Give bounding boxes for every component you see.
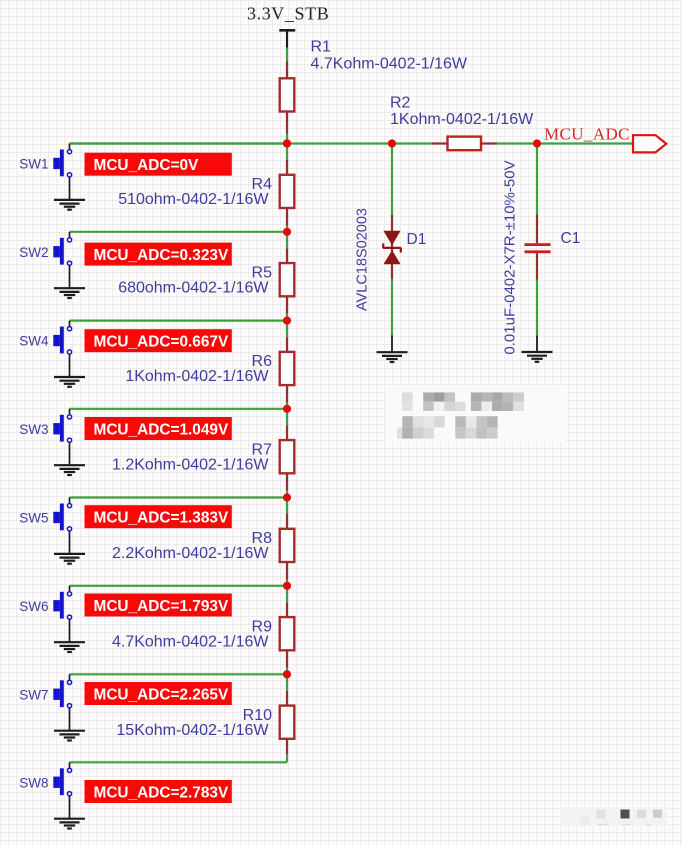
wire R2 to C1 node [497, 142, 633, 144]
watermark bottom-right blurred [560, 807, 667, 826]
port MCU_ADC [633, 135, 666, 152]
wire bus to D1 [391, 144, 393, 215]
annotation box MCU_ADC=2.265V [85, 682, 232, 705]
junction node row SW2 [283, 228, 291, 236]
ground for SW7 [54, 731, 85, 741]
capacitor C1 [525, 215, 551, 280]
junction node bus/C1 [533, 139, 541, 147]
svg-text:MCU_ADC=2.265V: MCU_ADC=2.265V [94, 686, 229, 703]
svg-text:R1: R1 [311, 39, 332, 56]
svg-text:SW8: SW8 [19, 775, 48, 790]
wire row SW6 horizontal [70, 585, 288, 587]
ground for C1 [522, 352, 553, 362]
switch SW1 [53, 144, 71, 177]
svg-text:3.3V_STB: 3.3V_STB [247, 4, 329, 24]
annotation box MCU_ADC=0V [85, 153, 232, 176]
resistor R6 [280, 337, 295, 403]
ground for SW6 [54, 642, 85, 652]
junction node bus/R4 [283, 139, 291, 147]
wire row SW1 horizontal [70, 142, 288, 144]
wire R1 to bus node [286, 134, 288, 144]
junction node row SW7 [283, 670, 291, 678]
annotation box MCU_ADC=0.667V [85, 329, 232, 352]
junction node row SW3 [283, 405, 291, 413]
wire R8 to next node [286, 580, 288, 586]
ground for SW1 [54, 200, 85, 210]
svg-text:1.2Kohm-0402-1/16W: 1.2Kohm-0402-1/16W [112, 456, 269, 473]
svg-text:15Kohm-0402-1/16W: 15Kohm-0402-1/16W [116, 722, 269, 739]
svg-text:SW3: SW3 [19, 422, 48, 437]
svg-text:R2: R2 [390, 95, 411, 112]
svg-text:510ohm-0402-1/16W: 510ohm-0402-1/16W [118, 191, 269, 208]
wire D1 to ground [391, 279, 393, 335]
wire R10 to next node [286, 754, 288, 762]
switch SW6 [53, 586, 71, 620]
junction node row SW1 [283, 139, 291, 147]
switch SW8 [53, 762, 71, 796]
svg-text:4.7Kohm-0402-1/16W: 4.7Kohm-0402-1/16W [311, 56, 468, 73]
wire ladder bottom to SW8 [70, 761, 288, 763]
resistor R1 [280, 62, 295, 134]
svg-text:SW4: SW4 [19, 334, 49, 349]
switch SW4 [53, 321, 71, 355]
svg-text:MCU_ADC=0V: MCU_ADC=0V [94, 157, 200, 174]
wire bus to C1 [536, 144, 538, 215]
wire SW2 to ground [69, 266, 71, 289]
wire node to R5 [286, 232, 288, 249]
svg-text:MCU_ADC=1.049V: MCU_ADC=1.049V [94, 421, 229, 438]
ground for SW4 [54, 377, 85, 387]
wire node to R9 [286, 586, 288, 603]
wire SW8 to ground [69, 796, 71, 819]
svg-text:C1: C1 [561, 230, 581, 247]
annotation box MCU_ADC=1.049V [85, 417, 232, 440]
svg-text:MCU_ADC=1.383V: MCU_ADC=1.383V [94, 510, 229, 527]
svg-text:0.01uF-0402-X7R-±10%-50V: 0.01uF-0402-X7R-±10%-50V [502, 160, 519, 354]
switch SW3 [53, 409, 71, 443]
svg-text:4.7Kohm-0402-1/16W: 4.7Kohm-0402-1/16W [112, 633, 269, 650]
wire R5 to next node [286, 314, 288, 321]
wire row SW3 horizontal [70, 408, 288, 410]
svg-text:MCU_ADC: MCU_ADC [544, 125, 630, 144]
wire node to R4 [286, 144, 288, 161]
wire node to R6 [286, 321, 288, 338]
svg-text:SW2: SW2 [19, 245, 48, 260]
svg-text:MCU_ADC=1.793V: MCU_ADC=1.793V [94, 598, 229, 615]
wire R6 to next node [286, 403, 288, 409]
annotation box MCU_ADC=1.383V [85, 505, 232, 528]
svg-text:SW6: SW6 [19, 599, 48, 614]
ground for SW8 [54, 819, 85, 829]
power rail 3.3V_STB [247, 4, 329, 48]
svg-text:1Kohm-0402-1/16W: 1Kohm-0402-1/16W [390, 111, 534, 128]
svg-text:D1: D1 [407, 231, 427, 248]
svg-text:1Kohm-0402-1/16W: 1Kohm-0402-1/16W [125, 368, 269, 385]
svg-text:MCU_ADC=2.783V: MCU_ADC=2.783V [94, 784, 229, 801]
switch SW2 [53, 232, 71, 266]
wire node to R8 [286, 498, 288, 515]
wire row SW5 horizontal [70, 496, 288, 498]
resistor R4 [280, 160, 295, 226]
switch SW5 [53, 498, 71, 532]
wire row SW2 horizontal [70, 231, 288, 233]
wire SW4 to ground [69, 354, 71, 377]
wire SW1 to ground [69, 177, 71, 200]
wire power to R1 [286, 48, 288, 62]
ground for SW2 [54, 288, 85, 298]
wire node to R10 [286, 674, 288, 691]
resistor R9 [280, 602, 295, 668]
ground for SW3 [54, 465, 85, 475]
resistor R7 [280, 425, 295, 491]
wire SW6 to ground [69, 620, 71, 643]
resistor R10 [280, 691, 295, 754]
svg-text:2.2Kohm-0402-1/16W: 2.2Kohm-0402-1/16W [112, 545, 269, 562]
resistor R5 [280, 248, 295, 313]
switch SW7 [53, 674, 71, 708]
wire SW7 to ground [69, 708, 71, 731]
wire row SW4 horizontal [70, 320, 288, 322]
ground for D1 [377, 352, 408, 362]
junction node row SW6 [283, 582, 291, 590]
resistor R2 [432, 137, 497, 151]
junction node row SW4 [283, 317, 291, 325]
resistor R8 [280, 514, 295, 580]
wire top bus horizontal [70, 142, 432, 144]
svg-text:MCU_ADC=0.667V: MCU_ADC=0.667V [94, 334, 229, 351]
wire R9 to next node [286, 668, 288, 675]
annotation box MCU_ADC=0.323V [85, 243, 232, 266]
junction node bus/D1 [388, 139, 396, 147]
svg-text:SW5: SW5 [19, 511, 48, 526]
wire R4 to next node [286, 226, 288, 232]
annotation box MCU_ADC=1.793V [85, 594, 232, 617]
svg-text:AVLC18S02003: AVLC18S02003 [355, 208, 371, 311]
svg-text:SW1: SW1 [19, 157, 48, 172]
wire SW3 to ground [69, 443, 71, 466]
annotation box MCU_ADC=2.783V [85, 780, 232, 803]
svg-text:MCU_ADC=0.323V: MCU_ADC=0.323V [94, 247, 229, 264]
svg-text:680ohm-0402-1/16W: 680ohm-0402-1/16W [118, 279, 269, 296]
wire R7 to next node [286, 491, 288, 498]
watermark center blurred [386, 385, 566, 442]
TVS diode D1 [383, 215, 401, 279]
wire node to R7 [286, 409, 288, 426]
wire row SW7 horizontal [70, 673, 288, 675]
wire C1 to ground [536, 280, 538, 336]
ground for SW5 [54, 554, 85, 564]
svg-text:SW7: SW7 [19, 687, 48, 702]
wire SW5 to ground [69, 531, 71, 554]
junction node row SW5 [283, 493, 291, 501]
